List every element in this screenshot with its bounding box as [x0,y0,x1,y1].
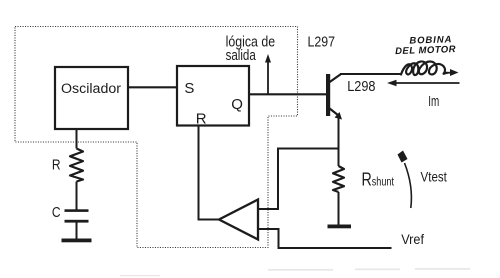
ground under C [62,239,92,243]
node: wire to comparator + input [278,149,339,210]
svg-text:L298: L298 [347,79,375,95]
comparator lower input wire / Vref [258,229,392,248]
oscillator box U1 [55,67,128,129]
flip-flop box U2 [177,66,249,128]
ground under Rshunt [328,225,352,229]
collector wire [340,73,402,75]
label BOBINA DEL MOTOR (handwritten) [395,34,456,57]
L297 dashed boundary [15,27,298,248]
emitter wire down [338,117,340,166]
svg-text:DEL MOTOR: DEL MOTOR [395,44,456,57]
comparator upper input wire [258,208,279,210]
svg-text:Oscilador: Oscilador [61,81,122,96]
wire Q output to transistor base [249,93,327,95]
comparator U3 [219,200,258,240]
svg-text:S: S [184,80,194,97]
capacitor C [65,209,89,238]
svg-text:L297: L297 [308,35,336,51]
coil end arrow [446,69,459,76]
Im current arrow [387,80,460,87]
svg-text:Vref: Vref [401,231,424,247]
svg-text:Im: Im [428,93,439,110]
wire oscillator to flip-flop S [128,86,177,88]
Vtest probe arrow [398,151,412,209]
wire R to C [76,182,78,210]
comparator output wire to R input [199,126,220,220]
output arrow up [265,54,271,94]
svg-text:R: R [196,111,207,128]
svg-text:Vtest: Vtest [421,169,447,185]
transistor Q1 (L298 output) [326,74,342,120]
svg-text:R: R [52,157,61,174]
svg-text:salida: salida [226,48,257,64]
svg-text:Q: Q [231,96,243,113]
resistor Rshunt [333,166,344,225]
wire oscillator to R [76,129,78,149]
resistor R [70,149,83,182]
motor coil L [401,61,447,75]
label logica de salida [226,34,276,64]
svg-text:C: C [52,204,61,221]
scan smudge bottom [120,268,470,276]
